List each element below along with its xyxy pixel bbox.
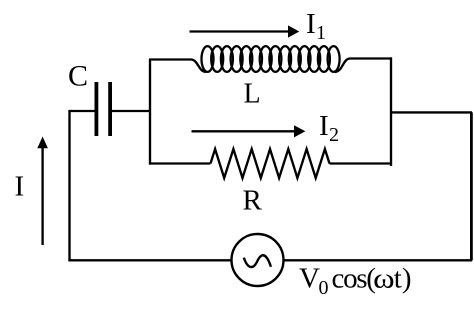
svg-text:cos(: cos( [332,262,376,294]
wire: right tap from right junction to right branch [390,111,472,113]
arrowhead: I (left, pointing up) [37,137,48,149]
wire: bottom branch from left junction to resistor [149,162,211,164]
capacitor C plates [96,82,110,136]
arrow: total current I on left [41,147,43,245]
svg-text:V: V [299,262,320,294]
arrow: current I1 above inductor [190,30,290,32]
wire: capacitor to left junction [112,110,151,112]
resistor R zigzag [211,149,330,178]
arrow: current I2 above resistor [192,130,296,132]
svg-text:0: 0 [319,277,329,299]
svg-text:2: 2 [329,124,339,146]
inductor L coil loops [202,46,340,72]
svg-text:L: L [244,79,261,110]
svg-text:t): t) [394,262,412,294]
AC source circle [232,234,284,286]
wire: top branch lead-out from inductor [335,59,392,72]
wire: left vertical branch [68,111,70,261]
wire: right vertical branch [470,112,473,260]
svg-text:I: I [15,170,25,202]
AC source sine wave [244,255,271,267]
node: left junction vertical bar of parallel branch [149,59,151,165]
svg-text:I: I [306,8,316,40]
node: right junction vertical bar of parallel branch [390,57,392,166]
wire: top-left horizontal from left branch to capacitor [68,110,94,112]
arrowhead: I2 [294,125,305,137]
svg-text:1: 1 [316,22,326,44]
arrowhead: I1 [288,25,299,37]
svg-text:C: C [68,60,88,93]
wire: bottom right segment from AC source to right branch [284,259,473,261]
wire: top branch lead-in to inductor [149,60,206,72]
svg-text:R: R [243,185,263,217]
wire: bottom left segment from left branch to AC source [68,259,231,261]
svg-text:I: I [319,110,329,142]
svg-text:ω: ω [373,262,395,294]
wire: bottom branch from resistor to right junction [330,162,393,164]
